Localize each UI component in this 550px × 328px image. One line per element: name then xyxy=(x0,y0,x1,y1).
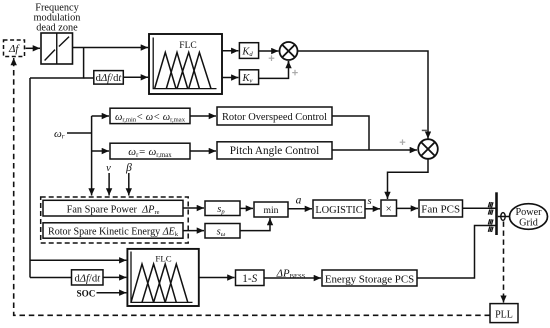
svg-text:Fan PCS: Fan PCS xyxy=(421,204,460,216)
svg-text:Rotor Spare Kinetic Energy ΔEk: Rotor Spare Kinetic Energy ΔEk xyxy=(48,227,179,239)
block condition1 xyxy=(110,108,190,123)
block sp xyxy=(205,201,240,216)
wire cond2 to pitch block xyxy=(190,150,216,152)
wire Kd to sum1 xyxy=(259,50,279,52)
block energy storage pcs xyxy=(322,270,417,286)
sign plus sum1 bottom xyxy=(292,70,298,76)
wire dashed PLL feedback to deltaf xyxy=(14,64,490,315)
wire branch down to dAf/dt row xyxy=(30,48,84,79)
wire 1-S to energy storage pcs xyxy=(264,277,321,279)
wire rotor output down xyxy=(332,116,369,150)
svg-text:β: β xyxy=(125,162,132,174)
wire deltaf branch down left xyxy=(29,78,31,278)
wire deltaf to deadzone xyxy=(26,47,41,49)
block logistic xyxy=(313,200,365,218)
svg-text:Pitch Angle Control: Pitch Angle Control xyxy=(230,145,320,157)
sign plus sum2 left xyxy=(400,139,406,145)
summing junction sum2 xyxy=(418,139,438,159)
svg-text:sp: sp xyxy=(217,204,225,216)
svg-text:1-S: 1-S xyxy=(242,273,257,285)
block condition2 xyxy=(110,143,190,159)
svg-text:Δf: Δf xyxy=(8,43,20,55)
block rotor overspeed control xyxy=(217,107,332,125)
sign plus sum1 left xyxy=(269,55,275,61)
wire omega_r vertical xyxy=(91,116,93,189)
block PLL xyxy=(490,304,518,323)
wire rotor spare to sw xyxy=(183,230,204,232)
power grid ellipse xyxy=(510,204,548,230)
svg-text:Kd: Kd xyxy=(241,47,253,59)
wire energy pcs to bus xyxy=(417,226,496,279)
transformer hatch upper xyxy=(488,202,493,215)
block fan spare power xyxy=(43,200,183,216)
block FLC1 fuzzy controller xyxy=(149,34,222,94)
svg-text:v: v xyxy=(106,163,111,174)
wire FLC1 to Kd xyxy=(222,50,238,52)
sign minus sum2 top xyxy=(422,129,427,131)
wire branch to FLC2 input1 xyxy=(30,259,126,261)
wire cond1 to rotor block xyxy=(190,115,216,117)
wire sum1 to sum2 xyxy=(298,51,429,133)
label power grid xyxy=(515,207,542,228)
block FLC2 fuzzy controller xyxy=(127,249,198,306)
dead zone block xyxy=(41,33,73,64)
svg-text:s: s xyxy=(367,196,371,207)
wire sp to min xyxy=(240,207,253,209)
wire min to logistic xyxy=(288,208,312,210)
label frequency modulation dead zone xyxy=(34,2,81,33)
svg-text:sω: sω xyxy=(217,226,226,238)
wire bus to power grid xyxy=(498,216,510,218)
wire pitch output to sum2 xyxy=(332,149,417,151)
block multiplier xyxy=(381,200,397,216)
block pitch angle control xyxy=(217,142,332,159)
svg-text:Kv: Kv xyxy=(242,73,253,85)
block dAf/dt bottom xyxy=(72,270,104,285)
svg-text:a: a xyxy=(296,195,302,207)
svg-text:Power: Power xyxy=(515,207,542,218)
wire multiplier to fan pcs xyxy=(397,207,419,209)
wire FLC2 to 1-S xyxy=(199,277,235,279)
wire fan spare to sp xyxy=(183,207,204,209)
block 1-S xyxy=(236,270,265,286)
wire v input xyxy=(108,173,110,196)
svg-text:FLC: FLC xyxy=(155,254,171,264)
svg-text:ωr= ωr,max: ωr= ωr,max xyxy=(128,146,172,159)
wire fan pcs to bus xyxy=(463,207,497,209)
block dAf/dt top xyxy=(94,71,124,85)
wire sum2 output to multiplier xyxy=(388,159,429,194)
svg-text:Rotor Overspeed Control: Rotor Overspeed Control xyxy=(222,112,327,123)
svg-text:FLC: FLC xyxy=(179,41,196,51)
block min xyxy=(254,202,288,217)
svg-text:SOC: SOC xyxy=(77,288,96,298)
wire Kv to sum1 bottom xyxy=(259,61,289,78)
wire omega_r trunk xyxy=(67,132,92,134)
svg-text:Fan Spare Power ΔPre: Fan Spare Power ΔPre xyxy=(67,204,160,216)
wire logistic to multiplier xyxy=(365,208,380,210)
svg-text:ΔPBESS: ΔPBESS xyxy=(276,267,306,280)
block fan pcs xyxy=(419,200,463,217)
wire dAf/dt bottom to FLC2 xyxy=(103,276,126,278)
wire deadzone to FLC1 xyxy=(73,47,149,49)
wire sw to min bottom xyxy=(240,223,270,231)
svg-text:ωr: ωr xyxy=(54,128,65,141)
block Kd gain xyxy=(239,43,258,59)
spare capacity dashed group box xyxy=(41,197,189,243)
block Kv gain xyxy=(239,70,258,85)
svg-text:dead zone: dead zone xyxy=(36,22,78,33)
svg-text:dΔf/dt: dΔf/dt xyxy=(74,273,101,284)
node deltaf input dashed box xyxy=(4,40,25,57)
wire dashed measurement to PLL xyxy=(503,222,505,298)
svg-text:Grid: Grid xyxy=(519,217,538,228)
wire to cond1 xyxy=(92,115,109,117)
wire beta input xyxy=(128,173,130,196)
wire FLC1 to Kv xyxy=(222,77,238,79)
svg-text:min: min xyxy=(264,205,279,216)
block rotor spare kinetic energy xyxy=(43,223,183,238)
bus bar xyxy=(495,192,498,235)
svg-text:dΔf/dt: dΔf/dt xyxy=(96,73,123,84)
svg-text:LOGISTIC: LOGISTIC xyxy=(315,205,362,216)
wire dAf/dt to FLC1 xyxy=(123,76,148,78)
summing junction sum1 xyxy=(280,42,298,60)
wire junction to top dAf/dt box xyxy=(84,77,94,79)
transformer hatch lower xyxy=(488,219,493,232)
measurement point ct xyxy=(501,213,505,221)
wire SOC to FLC2 xyxy=(97,292,127,294)
wire to cond2 xyxy=(92,150,109,152)
block sw xyxy=(205,224,240,239)
svg-text:Energy Storage PCS: Energy Storage PCS xyxy=(325,273,414,285)
svg-text:×: × xyxy=(386,203,392,215)
svg-text:PLL: PLL xyxy=(495,310,513,321)
wire into bottom dAf/dt xyxy=(30,277,72,279)
svg-text:ωr,min< ω< ωr,max: ωr,min< ω< ωr,max xyxy=(115,112,186,124)
